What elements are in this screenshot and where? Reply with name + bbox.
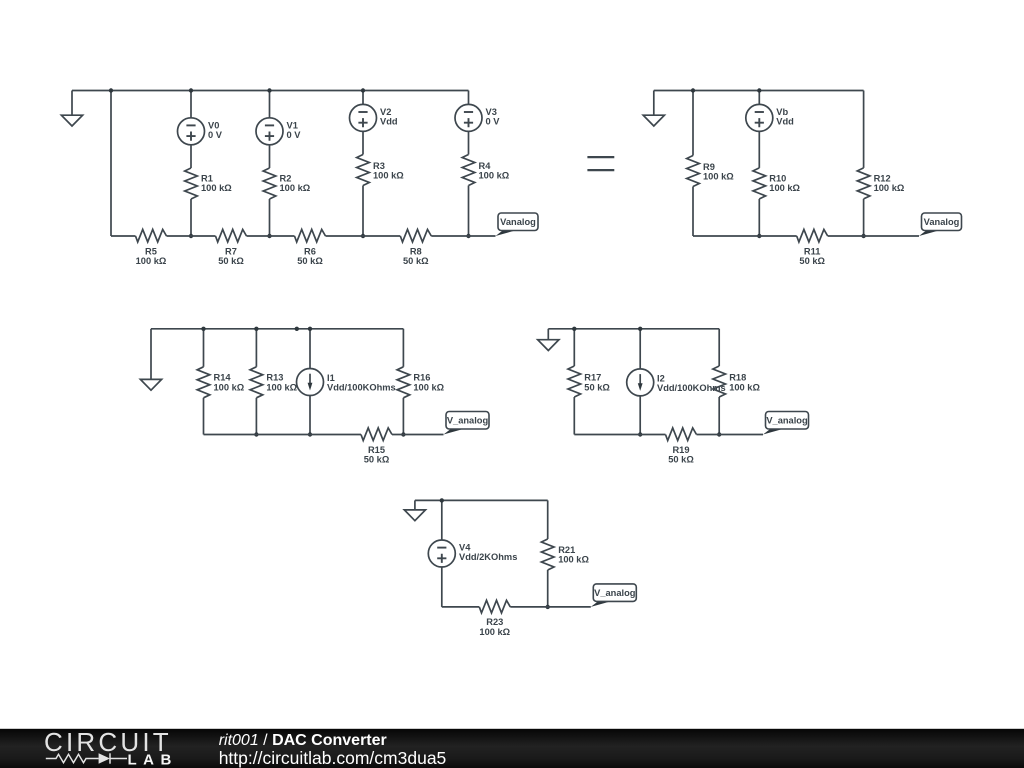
junction top rail / I1 branch xyxy=(308,327,312,331)
wire R3 bottom lead xyxy=(362,186,364,237)
junction bottom rail / R2 xyxy=(267,234,271,238)
svg-text:I1: I1 xyxy=(327,373,335,383)
ground GND4 xyxy=(538,329,559,351)
svg-text:I2: I2 xyxy=(657,373,665,383)
wire top rail, circuit 1 xyxy=(72,90,469,92)
ground GND3 xyxy=(140,329,161,390)
wire V3 to R4 xyxy=(468,131,470,154)
svg-text:V_analog: V_analog xyxy=(594,588,636,598)
ground GND1 xyxy=(61,91,82,127)
svg-text:V1: V1 xyxy=(287,120,298,130)
resistor R7 xyxy=(216,229,247,242)
svg-text:R6: R6 xyxy=(304,246,316,256)
junction top rail / left drop xyxy=(109,88,113,92)
wire left drop, circuit 1 xyxy=(110,91,112,237)
label Vb value Vdd xyxy=(776,107,794,127)
current source I1 xyxy=(297,369,324,396)
label R23 value 100 kΩ xyxy=(479,617,510,637)
junction bottom rail / R4 xyxy=(466,234,470,238)
label V4 value Vdd/2KOhms xyxy=(459,543,517,563)
wire top rail, circuit 3 xyxy=(151,328,403,330)
svg-text:50 kΩ: 50 kΩ xyxy=(297,256,323,266)
label I1 value Vdd/100KOhms xyxy=(327,373,396,393)
svg-text:Vdd: Vdd xyxy=(776,117,794,127)
resistor R17 xyxy=(568,366,581,397)
wire to Vanalog flag, circuit 1 xyxy=(431,235,495,237)
wire R4 bottom lead xyxy=(468,186,470,237)
wire R16 bottom lead xyxy=(402,398,404,435)
wire top rail, circuit 5 xyxy=(415,499,548,501)
wire V0 top lead xyxy=(190,91,192,118)
node Vanalog (circuit 1 output flag) xyxy=(496,213,539,236)
svg-text:100 kΩ: 100 kΩ xyxy=(769,183,800,193)
junction top rail / V0 branch xyxy=(189,88,193,92)
svg-text:0 V: 0 V xyxy=(287,130,302,140)
junction top rail / V1 branch xyxy=(267,88,271,92)
wire I1 top lead xyxy=(309,329,311,369)
svg-text:V_analog: V_analog xyxy=(766,416,808,426)
node V_analog (circuit 4 output flag) xyxy=(763,412,809,435)
label R8 value 50 kΩ xyxy=(403,246,429,266)
label R14 value 100 kΩ xyxy=(214,373,245,393)
wire bottom rail segment 1, circuit 5 xyxy=(442,606,480,608)
svg-text:V3: V3 xyxy=(486,107,497,117)
resistor R11 xyxy=(797,229,828,242)
junction bottom rail / R1 xyxy=(189,234,193,238)
resistor R10 xyxy=(753,168,766,199)
junction bottom rail / R12 xyxy=(861,234,865,238)
resistor R6 xyxy=(295,229,326,242)
junction bottom rail / R10 xyxy=(757,234,761,238)
svg-text:R17: R17 xyxy=(584,373,601,383)
svg-text:R19: R19 xyxy=(672,445,689,455)
svg-text:Vb: Vb xyxy=(776,107,788,117)
resistor R4 xyxy=(462,155,475,186)
ground GND2 xyxy=(643,91,664,127)
svg-text:100 kΩ: 100 kΩ xyxy=(280,183,311,193)
wire V2 to R3 xyxy=(362,131,364,154)
wire R2 bottom lead xyxy=(269,199,271,236)
label I2 value Vdd/100KOhms xyxy=(657,373,726,393)
label R4 value 100 kΩ xyxy=(479,161,510,181)
resistor R16 xyxy=(397,367,410,398)
svg-text:R3: R3 xyxy=(373,161,385,171)
svg-text:Vanalog: Vanalog xyxy=(500,217,536,227)
svg-text:R15: R15 xyxy=(368,445,385,455)
wire Vb to R10 xyxy=(758,131,760,168)
junction top rail / R14 branch xyxy=(201,327,205,331)
voltage source V2 xyxy=(350,104,377,131)
svg-text:V2: V2 xyxy=(380,107,391,117)
node Vanalog (circuit 2 output flag) xyxy=(919,213,962,236)
svg-text:100 kΩ: 100 kΩ xyxy=(479,627,510,637)
svg-text:0 V: 0 V xyxy=(486,117,501,127)
wire R17 bottom lead xyxy=(573,397,575,435)
svg-text:R14: R14 xyxy=(214,373,232,383)
svg-text:R21: R21 xyxy=(558,545,575,555)
junction top rail / R13 branch xyxy=(254,327,258,331)
footer bar xyxy=(0,729,1024,768)
svg-text:R7: R7 xyxy=(225,246,237,256)
svg-text:R18: R18 xyxy=(729,373,746,383)
equivalence sign between circuits xyxy=(587,157,614,170)
wire R12 bottom lead xyxy=(863,199,865,236)
CircuitLab logo resistor-diode glyph xyxy=(46,753,127,763)
svg-text:100 kΩ: 100 kΩ xyxy=(214,382,245,392)
label R18 value 100 kΩ xyxy=(729,373,760,393)
resistor R14 xyxy=(197,367,210,398)
wire bottom rail segment 4 xyxy=(326,235,401,237)
voltage source V3 xyxy=(455,104,482,131)
resistor R8 xyxy=(400,229,431,242)
resistor R3 xyxy=(357,155,370,186)
resistor R18 xyxy=(713,366,726,397)
label R16 value 100 kΩ xyxy=(413,373,444,393)
svg-text:100 kΩ: 100 kΩ xyxy=(136,256,167,266)
svg-text:Vdd/2KOhms: Vdd/2KOhms xyxy=(459,552,517,562)
wire to V_analog flag, circuit 5 xyxy=(510,606,591,608)
junction top rail / V2 branch xyxy=(361,88,365,92)
wire top rail, circuit 2 xyxy=(654,90,864,92)
voltage source V0 xyxy=(178,118,205,145)
svg-text:R8: R8 xyxy=(410,246,422,256)
wire R21 top lead xyxy=(547,500,549,539)
voltage source V1 xyxy=(256,118,283,145)
svg-text:50 kΩ: 50 kΩ xyxy=(218,256,244,266)
wire I2 bottom lead xyxy=(639,396,641,435)
resistor R19 xyxy=(666,428,697,441)
wire R12 top lead xyxy=(863,91,865,168)
svg-text:50 kΩ: 50 kΩ xyxy=(403,256,429,266)
label R9 value 100 kΩ xyxy=(703,162,734,182)
wire bottom rail segment 1, circuit 2 xyxy=(693,235,797,237)
junction bottom rail / R13 xyxy=(254,432,258,436)
junction bottom rail / R18 xyxy=(717,432,721,436)
label V0 value 0 V xyxy=(208,120,223,140)
wire R13 bottom lead xyxy=(255,398,257,435)
svg-text:R4: R4 xyxy=(479,161,492,171)
wire I2 top lead xyxy=(639,329,641,369)
voltage source Vb xyxy=(746,104,773,131)
resistor R15 xyxy=(361,428,392,441)
resistor R1 xyxy=(185,168,198,199)
label V3 value 0 V xyxy=(486,107,501,127)
wire R17 top lead xyxy=(573,329,575,366)
wire bottom rail segment 3 xyxy=(247,235,295,237)
junction bottom rail / I1 xyxy=(308,432,312,436)
svg-text:100 kΩ: 100 kΩ xyxy=(729,382,760,392)
wire Vb top lead xyxy=(758,91,760,105)
svg-text:100 kΩ: 100 kΩ xyxy=(703,172,734,182)
wire R18 top lead xyxy=(718,329,720,366)
wire R9 top lead xyxy=(692,91,694,156)
svg-text:V0: V0 xyxy=(208,120,219,130)
svg-text:R13: R13 xyxy=(266,373,283,383)
svg-text:0 V: 0 V xyxy=(208,130,223,140)
svg-text:100 kΩ: 100 kΩ xyxy=(558,555,589,565)
label R13 value 100 kΩ xyxy=(266,373,297,393)
label R12 value 100 kΩ xyxy=(874,173,905,193)
svg-text:Vanalog: Vanalog xyxy=(924,217,960,227)
label R3 value 100 kΩ xyxy=(373,161,404,181)
svg-text:100 kΩ: 100 kΩ xyxy=(266,382,297,392)
svg-text:R10: R10 xyxy=(769,173,786,183)
svg-text:V4: V4 xyxy=(459,543,471,553)
svg-text:50 kΩ: 50 kΩ xyxy=(364,454,390,464)
svg-text:rit001 / DAC Converter: rit001 / DAC Converter xyxy=(219,732,387,749)
wire R16 top lead xyxy=(402,329,404,367)
resistor R21 xyxy=(541,539,554,570)
label R15 value 50 kΩ xyxy=(364,445,390,465)
junction bottom rail / R3 xyxy=(361,234,365,238)
junction bottom rail / I2 xyxy=(638,432,642,436)
svg-text:50 kΩ: 50 kΩ xyxy=(584,382,610,392)
ground GND5 xyxy=(404,500,425,520)
wire R10 bottom lead xyxy=(758,199,760,236)
resistor R23 xyxy=(479,600,510,613)
wire to V_analog flag, circuit 3 xyxy=(392,434,444,436)
label R7 value 50 kΩ xyxy=(218,246,244,266)
label R17 value 50 kΩ xyxy=(584,373,610,393)
junction top rail / Vb branch xyxy=(757,88,761,92)
svg-text:http://circuitlab.com/cm3dua5: http://circuitlab.com/cm3dua5 xyxy=(219,748,447,768)
label R10 value 100 kΩ xyxy=(769,173,800,193)
current source I2 xyxy=(627,369,654,396)
wire R18 bottom lead xyxy=(718,397,720,435)
svg-text:Vdd/100KOhms: Vdd/100KOhms xyxy=(327,383,396,393)
wire R9 bottom lead xyxy=(692,187,694,237)
label R6 value 50 kΩ xyxy=(297,246,323,266)
svg-text:100 kΩ: 100 kΩ xyxy=(479,171,510,181)
wire V3 top lead xyxy=(468,91,470,105)
svg-text:R23: R23 xyxy=(486,617,503,627)
wire R14 bottom lead xyxy=(203,398,205,435)
wire bottom rail segment 1, circuit 3 xyxy=(204,434,362,436)
svg-text:50 kΩ: 50 kΩ xyxy=(668,454,694,464)
svg-text:R2: R2 xyxy=(280,173,292,183)
resistor R13 xyxy=(250,367,263,398)
svg-text:Vdd: Vdd xyxy=(380,117,398,127)
label R1 value 100 kΩ xyxy=(201,173,232,193)
svg-text:50 kΩ: 50 kΩ xyxy=(799,256,825,266)
svg-text:R12: R12 xyxy=(874,173,891,183)
wire V1 top lead xyxy=(269,91,271,118)
label V1 value 0 V xyxy=(287,120,302,140)
wire I1 bottom lead xyxy=(309,395,311,434)
node V_analog (circuit 3 output flag) xyxy=(444,412,490,435)
wire R13 top lead xyxy=(255,329,257,367)
wire V0 to R1 xyxy=(190,145,192,168)
wire bottom rail segment 1 xyxy=(111,235,136,237)
label R2 value 100 kΩ xyxy=(280,173,311,193)
svg-text:R9: R9 xyxy=(703,162,715,172)
junction bottom rail / R16 xyxy=(401,432,405,436)
wire V2 top lead xyxy=(362,91,364,105)
svg-text:100 kΩ: 100 kΩ xyxy=(201,183,232,193)
label R21 value 100 kΩ xyxy=(558,545,589,565)
wire top rail, circuit 4 xyxy=(548,328,719,330)
svg-text:R11: R11 xyxy=(804,246,821,256)
svg-text:R1: R1 xyxy=(201,173,213,183)
junction top rail / R9 branch xyxy=(691,88,695,92)
svg-text:R5: R5 xyxy=(145,246,157,256)
wire V4 bottom lead xyxy=(441,567,443,607)
junction top rail / I2 branch xyxy=(638,327,642,331)
wire bottom rail segment 2 xyxy=(167,235,216,237)
voltage source V4 xyxy=(428,540,455,567)
resistor R12 xyxy=(857,168,870,199)
junction node marker on top rail, circuit 3 xyxy=(295,327,299,331)
wire R1 bottom lead xyxy=(190,199,192,236)
node V_analog (circuit 5 output flag) xyxy=(591,584,637,607)
junction bottom rail / R21 xyxy=(546,605,550,609)
wire to V_analog flag, circuit 4 xyxy=(697,434,764,436)
label R5 value 100 kΩ xyxy=(136,246,167,266)
resistor R5 xyxy=(136,229,167,242)
wire to Vanalog flag, circuit 2 xyxy=(828,235,919,237)
svg-text:100 kΩ: 100 kΩ xyxy=(373,171,404,181)
wire bottom rail segment 1, circuit 4 xyxy=(574,434,665,436)
wire V4 top lead xyxy=(441,500,443,540)
label R11 value 50 kΩ xyxy=(799,246,825,266)
svg-text:100 kΩ: 100 kΩ xyxy=(413,382,444,392)
svg-text:R16: R16 xyxy=(413,373,430,383)
label R19 value 50 kΩ xyxy=(668,445,694,465)
resistor R9 xyxy=(687,156,700,187)
svg-text:V_analog: V_analog xyxy=(447,416,489,426)
svg-text:100 kΩ: 100 kΩ xyxy=(874,183,905,193)
wire R14 top lead xyxy=(203,329,205,367)
junction top rail / R17 branch xyxy=(572,327,576,331)
wire V1 to R2 xyxy=(269,145,271,168)
wire R21 bottom lead xyxy=(547,570,549,607)
junction top rail / V4 branch xyxy=(440,498,444,502)
label V2 value Vdd xyxy=(380,107,398,127)
svg-text:LAB: LAB xyxy=(128,752,178,768)
resistor R2 xyxy=(263,168,276,199)
